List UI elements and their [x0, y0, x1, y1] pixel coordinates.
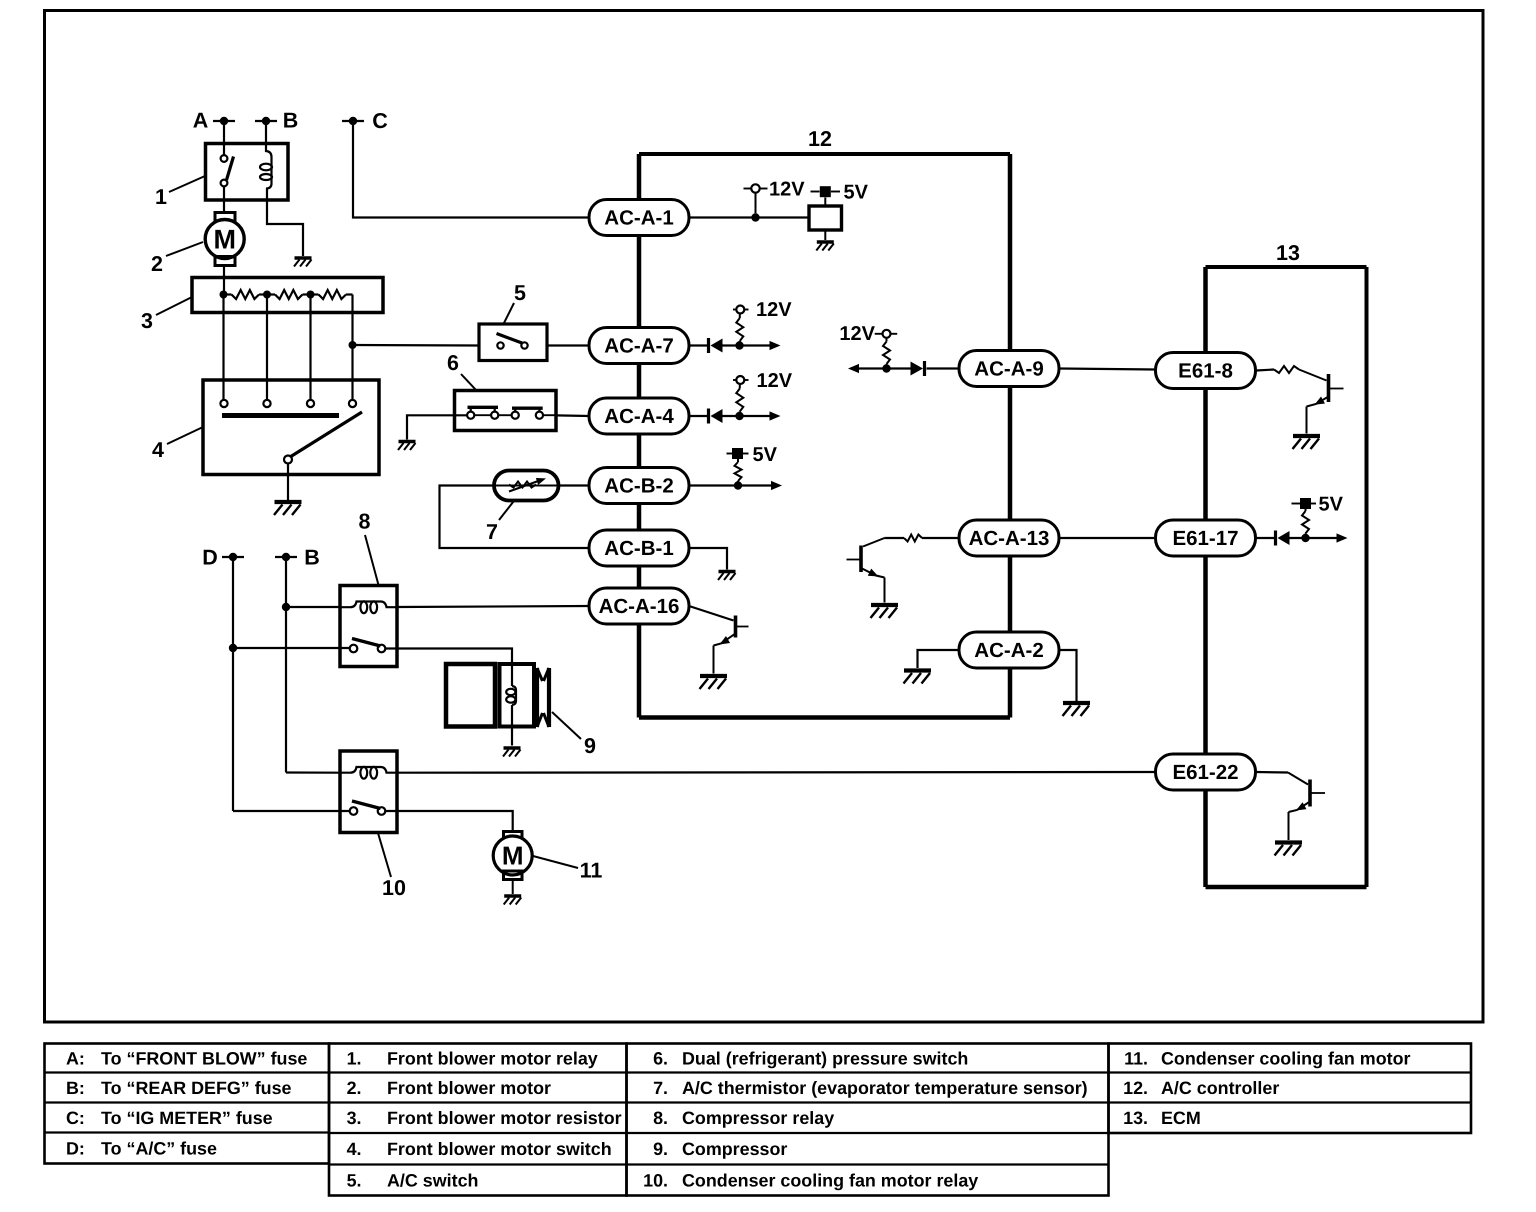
svg-text:AC-B-2: AC-B-2: [604, 475, 673, 498]
resistor 3 element b: [267, 293, 275, 295]
wire E61-17 diode branch: [1257, 537, 1275, 539]
arrow out AC-A-7: [770, 341, 781, 350]
terminal D (to A/C fuse): [222, 556, 244, 558]
wire relay 10 switch to motor 11: [385, 811, 512, 832]
node AC-A-9: [882, 364, 890, 372]
svg-text:5: 5: [514, 281, 526, 305]
resistor at AC-A-13: [922, 537, 959, 539]
svg-text:Compressor relay: Compressor relay: [682, 1108, 834, 1128]
wire arrow to diode AC-A-9: [857, 367, 911, 369]
wire Q1 emitter to ground: [713, 646, 715, 674]
wire diode to arrow AC-A-4: [723, 415, 771, 417]
svg-text:A:: A:: [66, 1049, 85, 1069]
svg-text:12V: 12V: [839, 323, 875, 345]
svg-text:AC-A-13: AC-A-13: [969, 527, 1050, 550]
transistor Q1 (AC-A-16 driver): [734, 616, 738, 638]
wire diode to arrow: [723, 344, 771, 346]
relay 1 switch contact top: [221, 155, 228, 162]
ground (switch 6): [399, 440, 416, 443]
5V source at AC-B-2: [727, 453, 733, 455]
diode at AC-A-9: [911, 362, 924, 376]
svg-text:9: 9: [584, 734, 596, 758]
connector E61-17: [1156, 520, 1256, 556]
svg-text:12V: 12V: [757, 370, 793, 392]
wire E61-22 to Q4: [1257, 771, 1289, 774]
switch 6 contact 4: [536, 412, 543, 419]
relay 8 (compressor relay) box: [340, 586, 397, 667]
5V source at E61-17: [1292, 503, 1301, 505]
terminal C (to IG METER fuse): [342, 120, 364, 122]
terminal A (to FRONT BLOW fuse): [213, 120, 235, 122]
resistor 3 element c: [311, 293, 319, 295]
wire thermistor to AC-B-1: [440, 486, 590, 549]
node E61-17: [1301, 534, 1309, 542]
pressure switch 6 box: [455, 391, 557, 431]
svg-text:10.: 10.: [643, 1171, 668, 1191]
wire relay 8 switch to compressor: [385, 649, 512, 665]
wire resistor to Q3: [1299, 370, 1327, 381]
svg-text:AC-A-9: AC-A-9: [974, 358, 1043, 381]
svg-text:E61-17: E61-17: [1172, 527, 1238, 550]
svg-text:D: D: [202, 546, 218, 570]
svg-text:6.: 6.: [653, 1049, 668, 1069]
connector AC-A-7: [589, 328, 689, 364]
wire AC-B-1 to ground: [689, 548, 727, 570]
svg-text:12V: 12V: [756, 299, 792, 321]
wire switch 6 to AC-A-4: [556, 414, 589, 417]
svg-text:B: B: [283, 109, 299, 133]
ground (AC-A-2 right): [1063, 701, 1090, 705]
arrow out E61-17: [1337, 533, 1348, 542]
wire AC-A-13 to E61-17: [1059, 537, 1156, 539]
junction node to A/C switch: [349, 341, 357, 349]
relay 10 (condenser fan motor relay) box: [340, 751, 397, 833]
wire diode to AC-A-9: [927, 367, 960, 369]
node AC-A-4: [735, 412, 743, 420]
ECM 13 box outline: [1206, 265, 1367, 269]
motor 11 (condenser cooling fan motor): [504, 832, 523, 841]
wire resistor tap 2 to switch 4: [266, 295, 268, 401]
terminal B (to REAR DEFG fuse): [255, 120, 277, 122]
wire relay 10 coil to E61-22: [397, 771, 1156, 774]
svg-text:12: 12: [808, 127, 832, 151]
svg-text:AC-A-7: AC-A-7: [604, 335, 673, 358]
svg-text:13: 13: [1276, 241, 1300, 265]
wire resistor tap 3 to switch 4: [309, 295, 311, 401]
svg-text:D:: D:: [66, 1139, 85, 1159]
pull-up resistor AC-A-7: [739, 341, 741, 346]
diode at E61-17: [1274, 531, 1277, 546]
wire node to A/C switch 5: [353, 344, 480, 347]
transistor Q2 (AC-A-13 driver): [859, 546, 863, 573]
node on AC-A-1 line: [751, 213, 759, 221]
svg-text:5V: 5V: [1319, 494, 1344, 516]
svg-text:To “REAR DEFG” fuse: To “REAR DEFG” fuse: [101, 1078, 292, 1098]
wire block to ground: [824, 230, 826, 240]
wire AC-A-16 to transistor base: [689, 606, 734, 621]
transistor Q3 (E61-8): [1327, 374, 1331, 402]
ground (motor 11): [504, 894, 521, 897]
ground (compressor): [504, 746, 521, 749]
svg-text:5V: 5V: [753, 444, 778, 466]
node B to relay 8 coil: [282, 603, 290, 611]
A/C controller 12 box outline: [639, 152, 1010, 156]
wire compressor coil to ground: [511, 727, 513, 746]
svg-text:E61-22: E61-22: [1172, 761, 1238, 784]
connector E61-8: [1156, 353, 1256, 389]
svg-text:B: B: [304, 546, 320, 570]
svg-text:10: 10: [382, 876, 406, 900]
svg-text:6: 6: [447, 351, 459, 375]
svg-text:Compressor: Compressor: [682, 1139, 787, 1159]
relay 1 (front blower motor relay) box: [206, 144, 289, 201]
svg-text:9.: 9.: [653, 1139, 668, 1159]
connector AC-A-4: [589, 398, 689, 434]
svg-text:1: 1: [155, 185, 167, 209]
switch 4 common bar: [222, 413, 339, 418]
connector E61-22: [1156, 754, 1256, 790]
svg-text:Front blower motor resistor: Front blower motor resistor: [387, 1108, 622, 1128]
svg-text:12.: 12.: [1123, 1078, 1148, 1098]
wire to Q2: [863, 538, 885, 547]
svg-text:A/C switch: A/C switch: [387, 1171, 478, 1191]
ground (AC-A-2 left): [904, 668, 931, 672]
svg-text:5.: 5.: [347, 1171, 362, 1191]
relay 8 coil: [340, 602, 397, 608]
wire relay 8 coil to AC-A-16: [397, 606, 589, 607]
switch 6 contact 2: [491, 412, 498, 419]
svg-text:C:: C:: [66, 1108, 85, 1128]
junction dots in resistor 3: [220, 291, 228, 299]
resistor block 3 (front blower motor resistor) box: [192, 278, 383, 313]
wire B bus: [285, 557, 287, 773]
switch 4 lever: [290, 412, 362, 457]
resistor 3 element a: [224, 293, 232, 295]
pull-up resistor E61-17: [1305, 534, 1307, 539]
5V source at AC-A-1: [811, 191, 820, 193]
wire AC-A-9 to E61-8: [1059, 369, 1156, 370]
wire A to relay 1: [223, 121, 225, 155]
wire resistor tap 4 to switch 4: [351, 295, 353, 401]
relay 10 coil: [340, 767, 397, 773]
12V source at AC-A-4: [733, 379, 737, 381]
ground (Q4): [1275, 840, 1302, 844]
svg-text:Front blower motor: Front blower motor: [387, 1078, 551, 1098]
switch 4 contact 3: [307, 400, 314, 407]
svg-text:M: M: [502, 841, 524, 871]
diode at AC-A-4: [707, 409, 710, 424]
switch 4 contact 2: [263, 400, 270, 407]
switch 6 contact 1: [467, 412, 474, 419]
connector AC-A-1: [589, 200, 689, 236]
svg-text:13.: 13.: [1123, 1108, 1148, 1128]
connector AC-B-1: [589, 530, 689, 566]
connector AC-A-2: [959, 632, 1059, 668]
pull-up resistor AC-A-9: [886, 364, 888, 369]
svg-text:To “IG METER” fuse: To “IG METER” fuse: [101, 1108, 273, 1128]
ground (AC-A-1 block): [817, 240, 834, 243]
wire B to relay 10 coil: [286, 771, 340, 773]
switch 6 contact 3: [512, 412, 519, 419]
wire resistor tap 1 to switch 4: [222, 295, 224, 401]
svg-text:7: 7: [486, 520, 498, 544]
switch 4 contact 1: [220, 400, 227, 407]
relay 1 switch contact bottom: [221, 180, 228, 187]
connector AC-B-2: [589, 468, 689, 504]
switch 4 (front blower motor switch) box: [203, 380, 379, 475]
svg-text:To “A/C” fuse: To “A/C” fuse: [101, 1139, 217, 1159]
switch 6 inner wire: [474, 414, 491, 416]
ground (switch 4): [275, 500, 302, 504]
relay 1 coil: [266, 150, 272, 200]
diode at AC-A-7: [707, 338, 710, 353]
svg-text:ECM: ECM: [1161, 1108, 1201, 1128]
svg-text:2.: 2.: [347, 1078, 362, 1098]
switch 5 (A/C switch) box: [479, 324, 547, 361]
wire D to relay 10 switch: [233, 810, 350, 812]
svg-text:7.: 7.: [653, 1078, 668, 1098]
12V source at AC-A-9: [875, 333, 883, 335]
svg-text:A/C controller: A/C controller: [1161, 1078, 1279, 1098]
terminal B2 (to REAR DEFG fuse): [275, 556, 297, 558]
ground (AC-B-1): [719, 570, 736, 573]
svg-text:M: M: [213, 225, 236, 255]
compressor 9 pulley: [535, 668, 539, 727]
pull-up resistor AC-B-2: [737, 481, 739, 486]
svg-text:Condenser cooling fan motor re: Condenser cooling fan motor relay: [682, 1171, 978, 1191]
connector AC-A-13: [959, 520, 1059, 556]
svg-text:Front blower motor relay: Front blower motor relay: [387, 1049, 598, 1069]
motor 2 (front blower motor): [215, 213, 235, 222]
wire B to relay 8 coil: [286, 606, 340, 608]
ground (Q1): [700, 674, 727, 678]
node AC-B-2: [734, 481, 742, 489]
svg-text:4.: 4.: [347, 1139, 362, 1159]
svg-text:B:: B:: [66, 1078, 85, 1098]
wire switch 6 to ground: [407, 415, 467, 439]
switch 4 contact 4: [349, 400, 356, 407]
ground (Q2): [871, 603, 898, 607]
switch 4 pivot contact: [284, 456, 292, 464]
wire Q2 emitter to ground: [884, 578, 886, 603]
wire AC-A-1 to pull-up node: [689, 216, 809, 218]
wire diode to arrow E61-17: [1290, 537, 1338, 539]
arrow out AC-A-4: [770, 411, 781, 420]
svg-text:5V: 5V: [844, 182, 869, 204]
switch 5 lever: [497, 334, 523, 344]
wire relay 1 to motor 2: [223, 187, 225, 213]
compressor 9 body: [446, 664, 495, 727]
svg-text:AC-A-1: AC-A-1: [604, 207, 673, 230]
svg-text:4: 4: [152, 438, 164, 462]
wire AC-A-2 left ground: [918, 650, 960, 668]
wire D bus: [232, 557, 234, 811]
compressor 9 clutch coil: [511, 664, 513, 686]
svg-text:Front blower motor switch: Front blower motor switch: [387, 1139, 612, 1159]
wire B to relay 1 coil: [265, 121, 267, 150]
svg-text:11: 11: [580, 859, 603, 883]
svg-text:AC-A-16: AC-A-16: [599, 595, 680, 618]
pull-up block at AC-A-1: [809, 206, 842, 230]
svg-text:2: 2: [151, 252, 163, 276]
switch 5 contact left: [497, 342, 503, 348]
wire Q4 emitter to ground: [1288, 812, 1290, 840]
arrow out AC-B-2: [771, 481, 782, 490]
svg-text:3: 3: [141, 309, 153, 333]
connector AC-A-9: [959, 351, 1059, 387]
svg-text:Dual (refrigerant) pressure sw: Dual (refrigerant) pressure switch: [682, 1049, 968, 1069]
ground (Q3): [1293, 434, 1320, 438]
svg-text:AC-B-1: AC-B-1: [604, 537, 673, 560]
base resistor Q3: [1257, 370, 1275, 371]
wire Q3 emitter to ground: [1306, 407, 1308, 434]
relay 8 switch: [350, 645, 358, 653]
svg-text:8: 8: [359, 510, 371, 534]
ground (relay 1 coil): [295, 256, 312, 259]
svg-text:8.: 8.: [653, 1108, 668, 1128]
svg-text:3.: 3.: [347, 1108, 362, 1128]
wire motor 2 to resistor 3: [223, 266, 225, 295]
connector AC-A-16: [589, 588, 689, 624]
svg-text:C: C: [372, 109, 388, 133]
svg-text:A/C thermistor (evaporator tem: A/C thermistor (evaporator temperature s…: [682, 1078, 1088, 1098]
relay 1 switch lever: [227, 157, 234, 181]
node D to relay 8: [229, 644, 237, 652]
svg-text:AC-A-2: AC-A-2: [974, 639, 1043, 662]
arrow in AC-A-9: [848, 364, 859, 373]
wire AC-A-7 diode branch: [689, 344, 707, 346]
wire thermistor to AC-B-2: [559, 484, 590, 486]
wire switch 5 to AC-A-7: [547, 344, 589, 346]
relay 10 switch: [350, 807, 358, 815]
wire switch 4 to ground: [287, 464, 289, 502]
wire relay 1 coil to ground: [267, 200, 303, 256]
12V source at AC-A-7: [733, 309, 737, 311]
svg-text:11.: 11.: [1124, 1049, 1148, 1069]
svg-text:Condenser cooling fan motor: Condenser cooling fan motor: [1161, 1049, 1411, 1069]
wire D to relay 8 switch: [233, 647, 350, 649]
pull-up resistor AC-A-4: [739, 412, 741, 417]
switch 5 contact right: [521, 342, 527, 348]
transistor Q4 (E61-22): [1308, 780, 1312, 807]
compressor 9 clutch coil box: [500, 664, 535, 727]
12V source at AC-A-1: [744, 188, 752, 190]
wire AC-A-4 diode branch: [689, 415, 707, 417]
wire AC-A-2 right ground: [1059, 650, 1077, 701]
node AC-A-7: [735, 341, 743, 349]
thermistor 7 (evaporator temperature sensor): [494, 471, 559, 501]
svg-text:12V: 12V: [769, 179, 805, 201]
svg-text:1.: 1.: [347, 1049, 362, 1069]
wire AC-B-2 branch: [689, 484, 772, 486]
switch 6 bridge b: [512, 407, 543, 410]
svg-text:To “FRONT BLOW” fuse: To “FRONT BLOW” fuse: [101, 1049, 307, 1069]
svg-text:A: A: [193, 109, 209, 133]
switch 6 bridge a: [468, 406, 499, 409]
svg-text:E61-8: E61-8: [1178, 360, 1233, 383]
wire motor 11 to ground: [512, 880, 514, 895]
wire C to AC-A-1: [353, 121, 589, 218]
svg-text:AC-A-4: AC-A-4: [604, 405, 674, 428]
